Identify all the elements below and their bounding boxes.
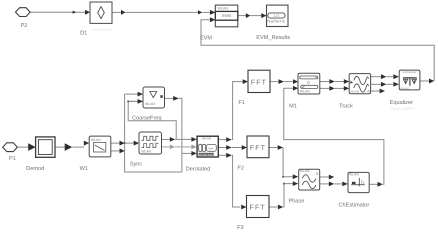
svg-text:F1: F1 bbox=[238, 100, 245, 106]
svg-text:Demod: Demod bbox=[26, 165, 44, 172]
svg-text:CoarseFreq: CoarseFreq bbox=[132, 116, 162, 122]
svg-text:W1: W1 bbox=[80, 166, 88, 172]
svg-text:P2: P2 bbox=[21, 23, 28, 29]
svg-text:EVM_Results: EVM_Results bbox=[256, 34, 290, 41]
svg-text:D1: D1 bbox=[80, 30, 87, 36]
svg-text:F2: F2 bbox=[237, 166, 244, 172]
svg-text:Derotated: Derotated bbox=[186, 165, 211, 172]
svg-text:M1: M1 bbox=[289, 104, 297, 110]
svg-text:ChEstimator: ChEstimator bbox=[339, 201, 370, 208]
svg-text:EVM: EVM bbox=[200, 35, 212, 41]
svg-text:F3: F3 bbox=[237, 225, 244, 231]
svg-text:Sync: Sync bbox=[130, 161, 143, 167]
svg-text:Phase: Phase bbox=[288, 198, 304, 205]
svg-text:P1: P1 bbox=[9, 156, 16, 162]
svg-text:Track: Track bbox=[339, 103, 353, 110]
svg-text:Equalizer: Equalizer bbox=[390, 99, 413, 106]
